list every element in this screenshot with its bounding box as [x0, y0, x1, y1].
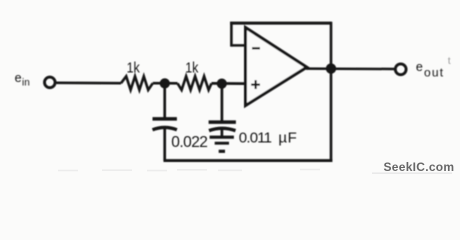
faint scan smudges	[58, 170, 452, 174]
svg-text:e: e	[15, 71, 22, 85]
wire node1 down to C1	[163, 83, 166, 119]
svg-text:out: out	[424, 65, 444, 79]
op-amp minus sign	[252, 47, 260, 49]
svg-text:µF: µF	[278, 129, 297, 146]
capacitor C1 curved bottom plate	[153, 127, 177, 129]
op-amp U1 triangle	[246, 28, 307, 106]
wire feedback top horizontal	[230, 22, 331, 25]
svg-text:SeekIC.com: SeekIC.com	[384, 160, 455, 174]
svg-text:in: in	[22, 77, 30, 88]
op-amp plus sign	[251, 80, 260, 89]
svg-text:e: e	[416, 60, 423, 74]
ground symbol	[210, 137, 234, 151]
svg-text:0.022: 0.022	[171, 134, 207, 151]
wire feedback left vertical	[230, 22, 233, 47]
wire C2 down to ground	[221, 130, 224, 136]
capacitor C1 top plate	[153, 117, 177, 121]
output node dot	[326, 63, 336, 73]
wire minus input stub	[231, 44, 245, 47]
wire feedback right vertical down to bottom wire	[330, 22, 333, 162]
resistor R2 zigzag	[178, 76, 212, 90]
wire bottom feedback horizontal	[164, 159, 333, 162]
svg-text:t: t	[448, 55, 451, 67]
output terminal circle	[395, 64, 406, 75]
wire R1 to R2	[153, 82, 178, 85]
wire input to R1	[56, 81, 121, 84]
junction node dot 1	[160, 78, 170, 88]
capacitor C2 curved bottom plate	[209, 128, 236, 130]
input terminal circle	[45, 77, 56, 88]
svg-text:0.011: 0.011	[239, 129, 272, 146]
svg-text:1k: 1k	[185, 60, 199, 77]
wire C1 down to bottom feedback wire	[163, 129, 166, 161]
resistor R1 zigzag	[121, 76, 153, 90]
svg-text:1k: 1k	[127, 60, 141, 77]
wire R2 to op-amp + input	[212, 82, 246, 85]
capacitor C2 top plate	[209, 120, 236, 124]
junction node dot 2	[217, 79, 227, 89]
node ein label	[15, 71, 30, 88]
wire node2 down to C2	[221, 84, 224, 121]
node eout label	[416, 60, 444, 79]
wire op-amp output to terminal	[306, 67, 394, 70]
